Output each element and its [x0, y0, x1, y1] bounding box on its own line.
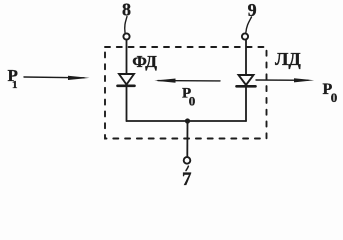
wire: bottom common rail: [127, 120, 247, 122]
svg-text:0: 0: [189, 94, 196, 109]
dashed module box: [105, 47, 267, 139]
laser diode ЛД triangle: [239, 75, 254, 85]
svg-text:7: 7: [182, 169, 192, 190]
input optical power arrow P1: [24, 76, 84, 79]
wire: pin 8 to photodiode anode: [126, 40, 128, 74]
laser diode ЛД cathode bar: [237, 85, 256, 88]
wire: junction down to pin 7: [186, 121, 188, 157]
monitor optical power arrow P0 (to photodiode): [158, 80, 220, 82]
svg-text:0: 0: [331, 90, 338, 105]
svg-text:ЛД: ЛД: [275, 49, 301, 69]
wire: photodiode cathode down: [126, 87, 128, 121]
pin 8 leader tick: [125, 17, 127, 33]
svg-text:ФД: ФД: [132, 52, 157, 71]
wire: pin 9 to laser diode anode: [245, 40, 247, 75]
junction node (common cathode): [185, 118, 190, 123]
pin 8 terminal circle: [123, 33, 129, 39]
photodiode ФД triangle: [119, 74, 134, 85]
pin 9 terminal circle: [242, 33, 248, 39]
wire: laser diode cathode down: [245, 88, 247, 122]
output optical power arrow P0: [256, 79, 308, 81]
pin 9 leader tick: [246, 17, 252, 33]
pin 7 terminal circle: [184, 157, 191, 164]
pin 7 leader tick: [186, 166, 188, 170]
svg-text:1: 1: [12, 79, 18, 91]
photodiode ФД cathode bar: [118, 85, 135, 88]
